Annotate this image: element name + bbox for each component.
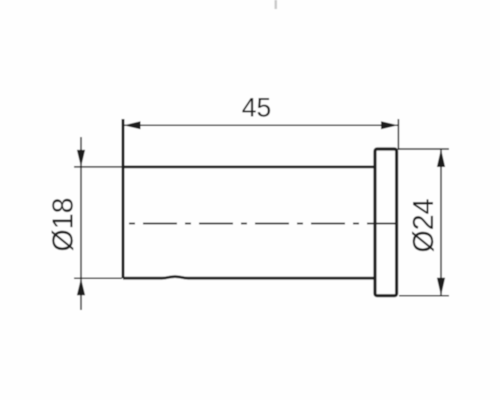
svg-text:Ø24: Ø24	[408, 198, 440, 252]
flange	[375, 149, 397, 296]
dimension D18: dimension line	[80, 137, 82, 310]
dimension 45: dimension line	[123, 124, 398, 126]
dimension D18: bottom extension line	[74, 277, 122, 279]
dimension 45: left arrowhead	[124, 121, 141, 129]
cylinder body outline	[122, 119, 125, 278]
dimension D18: top extension line	[74, 166, 122, 168]
dimension D24: dimension line	[440, 150, 442, 296]
dimension D24: bottom arrowhead	[437, 278, 445, 296]
dimension D24: top extension line	[399, 148, 449, 150]
svg-text:Ø18: Ø18	[47, 198, 79, 252]
dimension 45: left extension line	[122, 119, 124, 165]
dimension D24: top arrowhead	[437, 149, 445, 167]
svg-text:45: 45	[242, 93, 271, 123]
dimension D24: bottom extension line	[399, 295, 449, 297]
top edge faint tick	[275, 0, 278, 9]
dimension 45: right arrowhead	[381, 121, 398, 129]
dimension 45: right extension line	[397, 119, 399, 150]
dimension D18: top arrowhead	[77, 150, 85, 167]
centerline	[129, 223, 397, 225]
dimension D18: bottom arrowhead	[77, 278, 85, 295]
